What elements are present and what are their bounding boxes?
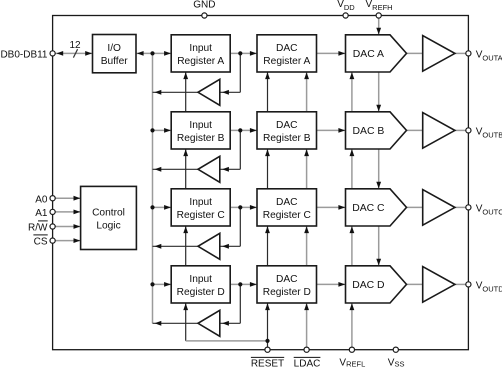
svg-text:Register B: Register B (263, 133, 311, 144)
svg-text:DAC A: DAC A (353, 49, 384, 60)
svg-text:DB0-DB11: DB0-DB11 (0, 50, 47, 61)
svg-text:CS: CS (34, 237, 48, 248)
svg-text:Register D: Register D (263, 287, 311, 298)
svg-text:DAC: DAC (276, 274, 298, 285)
svg-text:Register B: Register B (177, 133, 225, 144)
svg-text:Control: Control (92, 207, 125, 218)
svg-text:Logic: Logic (96, 220, 120, 231)
svg-text:Input: Input (189, 197, 212, 208)
svg-text:DAC: DAC (276, 120, 298, 131)
svg-text:DAC C: DAC C (352, 203, 385, 214)
svg-text:RESET: RESET (251, 359, 284, 367)
svg-text:DAC: DAC (276, 197, 298, 208)
svg-text:A0: A0 (35, 194, 48, 205)
svg-text:DAC D: DAC D (352, 280, 384, 291)
svg-text:R/W: R/W (28, 223, 48, 234)
svg-text:DAC B: DAC B (353, 126, 385, 137)
svg-text:I/O: I/O (107, 43, 121, 54)
svg-text:12: 12 (69, 40, 81, 51)
svg-text:Register A: Register A (263, 56, 310, 67)
svg-text:LDAC: LDAC (294, 359, 321, 367)
svg-text:GND: GND (193, 0, 215, 11)
svg-text:Input: Input (189, 274, 212, 285)
svg-text:Register A: Register A (177, 56, 224, 67)
svg-text:VREFL: VREFL (339, 357, 365, 367)
svg-text:Register D: Register D (177, 287, 225, 298)
svg-text:VSS: VSS (388, 357, 405, 367)
svg-text:Input: Input (189, 120, 212, 131)
svg-text:Input: Input (189, 43, 212, 54)
svg-text:Buffer: Buffer (101, 56, 129, 67)
svg-text:A1: A1 (35, 208, 48, 219)
svg-text:DAC: DAC (276, 43, 298, 54)
svg-text:Register C: Register C (263, 210, 311, 221)
svg-text:Register C: Register C (177, 210, 225, 221)
